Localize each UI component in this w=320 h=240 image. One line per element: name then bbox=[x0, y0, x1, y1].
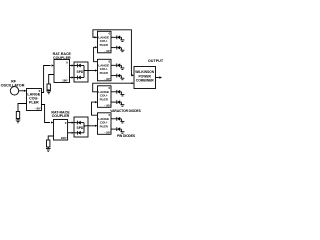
pin diode D10 with ground bbox=[111, 127, 124, 133]
svg-text:OUTPUT: OUTPUT bbox=[148, 59, 164, 63]
wire HY1 0-port to S1 bbox=[70, 65, 72, 67]
S2 label bbox=[77, 126, 86, 130]
svg-text:PLER: PLER bbox=[100, 125, 109, 129]
wire U3 through-port up to U2 bbox=[94, 47, 98, 61]
S1 label bbox=[77, 70, 86, 74]
wire HY2 isolated port to R3 bbox=[48, 136, 53, 140]
varactor diode D5 with ground bbox=[111, 63, 124, 69]
svg-text:0: 0 bbox=[66, 61, 68, 65]
pin diode D12 bbox=[74, 131, 84, 135]
Lange coupler U5 bbox=[98, 113, 112, 135]
svg-text:- 90°: - 90° bbox=[104, 104, 111, 108]
varactor diodes label bbox=[110, 109, 141, 113]
svg-text:COUPLER: COUPLER bbox=[52, 114, 70, 118]
pin diodes label bbox=[117, 134, 136, 138]
ground G1 bbox=[16, 120, 21, 123]
wire U4 output to combiner input 2 bbox=[93, 83, 132, 92]
wire S2 join bbox=[83, 123, 85, 133]
wire U1 -90 port to rat-race HY2 bbox=[42, 105, 51, 123]
svg-text:PLER: PLER bbox=[100, 98, 109, 102]
wire S1 join bbox=[83, 66, 85, 78]
varactor diode D7 with ground bbox=[111, 90, 124, 96]
Lange coupler U3 bbox=[98, 59, 112, 81]
Lange coupler U4 bbox=[98, 86, 112, 108]
varactor diode D6 with ground bbox=[111, 74, 124, 80]
svg-text:180°: 180° bbox=[61, 136, 68, 140]
wire S2 output to U5 bbox=[84, 125, 96, 127]
svg-text:PIN DIODES: PIN DIODES bbox=[117, 134, 136, 138]
svg-text:COMBINER: COMBINER bbox=[136, 79, 155, 83]
rat-race coupler HY2 label bbox=[51, 111, 70, 119]
wire HY1 180-port to S1 bbox=[70, 77, 72, 79]
SPDT switch S2 bbox=[74, 117, 88, 137]
wire U2 output over top to combiner input 1 bbox=[93, 36, 95, 38]
rat-race coupler HY1 bbox=[54, 60, 70, 83]
svg-text:PLER: PLER bbox=[29, 101, 39, 105]
resistor R3 bbox=[47, 140, 50, 147]
RF oscillator label bbox=[1, 80, 25, 88]
pin diode D9 with ground bbox=[111, 117, 124, 123]
svg-text:- 90°: - 90° bbox=[104, 49, 111, 53]
wire U1 0-port to rat-race HY1 bbox=[42, 66, 51, 93]
Lange coupler U1 bbox=[27, 89, 42, 111]
pin diode D1 bbox=[74, 64, 84, 68]
wire HY1 isolated port to R2 bbox=[49, 75, 54, 85]
svg-text:- 90°: - 90° bbox=[104, 131, 111, 135]
wire HY2 0-port to S2 bbox=[68, 122, 72, 124]
varactor diode D8 with ground bbox=[111, 100, 124, 106]
oscillator OSC1 bbox=[10, 87, 18, 95]
rat-race coupler HY2 bbox=[54, 120, 68, 141]
svg-text:VARACTOR DIODES: VARACTOR DIODES bbox=[110, 109, 141, 113]
Wilkinson power combiner CB1 bbox=[134, 67, 156, 89]
ground G3 bbox=[46, 149, 51, 152]
svg-text:PLER: PLER bbox=[100, 71, 109, 75]
ground G2 bbox=[46, 91, 51, 94]
SPDT switch S1 bbox=[74, 62, 88, 82]
resistor R1 bbox=[16, 112, 19, 119]
svg-text:0: 0 bbox=[65, 121, 67, 125]
resistor R2 bbox=[47, 84, 50, 90]
svg-text:180°: 180° bbox=[62, 78, 69, 82]
pin diode D2 bbox=[74, 76, 84, 80]
rat-race coupler HY1 label bbox=[53, 52, 72, 60]
svg-text:- 90°: - 90° bbox=[35, 107, 42, 111]
pin diode D11 bbox=[74, 121, 84, 125]
pin diode D4 with ground bbox=[111, 46, 124, 52]
wire OSC1 to U1 input bbox=[19, 90, 25, 92]
wire HY2 180-port to S2 bbox=[68, 132, 72, 134]
Lange coupler U2 bbox=[98, 31, 112, 53]
wire CB1 output arrow bbox=[156, 77, 160, 79]
wire S1 output to U3 bbox=[84, 70, 96, 72]
wire U5 through-port up to U4 bbox=[92, 102, 98, 115]
wire U1 isolated port to R1 bbox=[18, 104, 27, 112]
svg-text:PLER: PLER bbox=[100, 43, 109, 47]
output label bbox=[148, 59, 164, 63]
svg-text:- 90°: - 90° bbox=[104, 77, 111, 81]
pin diode D3 with ground bbox=[111, 35, 124, 41]
